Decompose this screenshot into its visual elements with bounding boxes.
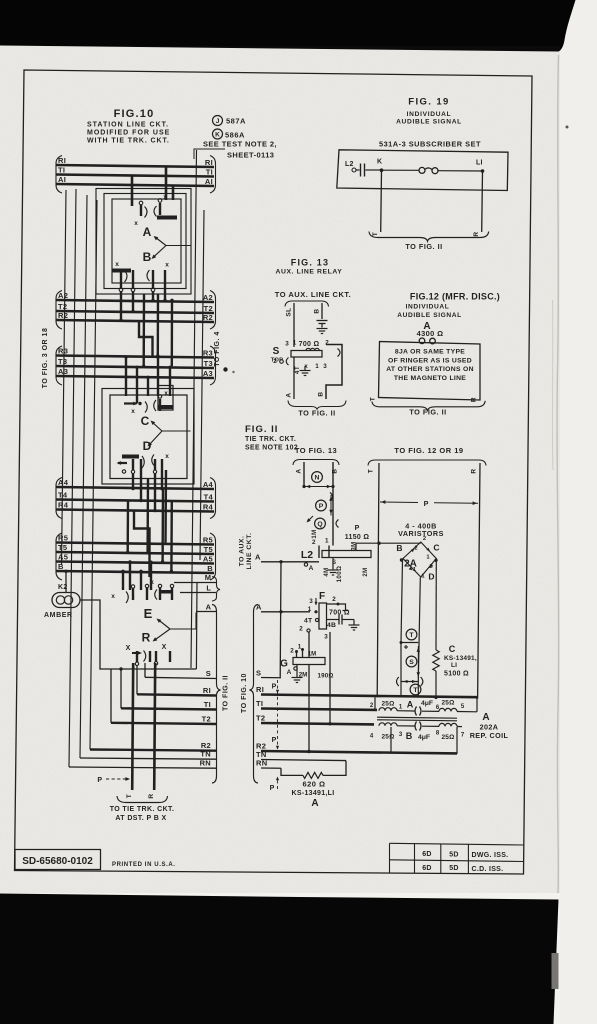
contact B arcs [125,271,128,283]
rail wire right 2 [200,210,204,560]
wire drop to R4 [154,473,156,511]
wire drop to T4 [140,470,142,501]
wire drop A3 right to C [169,366,171,396]
left cable bracket G5 [56,533,62,580]
cable bracket to FIG.13 [293,460,339,466]
wire R vertical (FIG.11) [478,463,480,699]
wire drop A5 to contact E [129,562,131,590]
ringer gongs (FIG.12) [419,338,425,344]
wire RN (FIG.11) [261,767,281,769]
terminal arrow (F) [315,598,317,605]
wire M [174,582,216,584]
wire T vertical (FIG.11) [377,463,379,697]
relay S coil [291,351,322,358]
wire drop T4 to B [170,500,173,571]
winding A humps right [439,708,457,711]
rail wire right 1 [191,150,197,668]
lamp K2 output wire [80,600,128,669]
wire varistor bottom down [418,578,420,682]
rep coil right edge [476,698,478,712]
wire step R2 to R3 [139,320,153,356]
terminal bars L2 [318,546,320,559]
cable bracket FIG.12 bottom [372,401,485,411]
wire drop A1 to contact A [172,185,175,201]
subscriber set box [337,150,508,191]
gray smudge on bottom band edge [552,953,559,989]
wire B (FIG.13) [321,303,323,319]
relay Q circle [315,518,326,529]
cable bracket to FIG.12/19 [368,460,486,466]
right cable bracket G1 [210,156,216,194]
capacitor 4UF B [415,722,417,731]
contact B terminal circles [119,288,123,292]
contact P double arrow [330,495,332,516]
cable bracket FIG.13 top [285,301,329,307]
wire drop B to contact E b [140,571,142,590]
apparatus J 587A [213,116,223,126]
issue table verticals [389,843,391,873]
contact loop E bottom edge [128,668,196,670]
wire T contact riser [400,643,402,698]
lamp K2 tail wire [65,571,67,592]
arrow to C [152,422,162,431]
contact arc Q [336,520,339,528]
contact loop rect A/B middle [104,194,186,289]
wire T bottom to coil [417,682,419,698]
ringer gongs [419,167,425,173]
wire RI (FIG.10) [57,165,215,167]
wire R2 (FIG.10) [57,320,215,322]
wire G coil down [308,665,310,752]
wire drop to T2 [132,291,134,311]
issue table mid line [390,860,524,862]
contact A left spring [139,201,143,205]
arrow to D [149,431,162,445]
capacitor 4UF A [415,707,417,716]
wire AI (FIG.10) [57,184,215,186]
wire A input [261,611,310,613]
terminal L2 circle [352,168,356,172]
arrow to R [154,629,170,641]
wire drop to A2 a [152,291,154,300]
contact loop rect C/D outer [102,389,194,485]
contact T row [401,642,418,644]
wire drop R3 to contact C [125,356,127,396]
contact arc B wire [330,493,333,501]
border frame [15,70,533,874]
wire terminal 2 right [326,345,342,400]
wire A down (FIG.13) [293,357,295,399]
wire resistor to coil [435,671,437,697]
bottom black band [0,894,559,1024]
relay S circle [406,656,417,667]
top black band [0,0,576,52]
contact arc right (FIG.13) [338,349,341,357]
relay P circle [316,500,327,511]
wire A top (FIG.11) [261,561,319,563]
drawing number box [15,850,101,870]
terminal A circle (L2) [304,563,307,566]
contact loop rect A/B inner [112,199,181,283]
varistor corner dots [400,558,403,561]
contact A armature bar [157,216,177,220]
wire T4 (FIG.10) [57,500,215,502]
wire drop long to T3 [142,294,145,366]
contact arc left (FIG.13) [286,358,288,366]
wire R5 (FIG.10) [57,543,215,545]
wire resistor to TN riser [323,761,346,776]
wire L2-K [366,169,382,171]
cable bracket PBX [117,796,168,803]
wire drop to contact C right [157,356,159,396]
wire L1 down [481,171,484,232]
wire from C/D arrow vertex [162,430,191,432]
wire drop T1 to contact A [131,176,134,207]
wire R4 (FIG.10) [57,510,215,512]
winding A mid wire [397,710,415,712]
wire T2 left riser [110,669,112,723]
wire varistor left corner down [401,560,403,643]
rep coil lower left drop [390,727,392,753]
wire B vertical (N col) [332,462,334,546]
wire drop R1 to contact A [165,166,168,201]
contact loop rect C/D [110,395,187,479]
contact D terminal circles [122,470,125,473]
wire T to PBX [132,663,133,790]
wire from E/R arrow vertex [170,613,196,630]
wire A2 (FIG.10) [57,300,215,302]
rail wire left 2 [80,195,87,758]
wire R2 (FIG.11) [261,751,457,753]
wire B (FIG.10) [57,571,215,573]
winding B humps left [379,723,397,726]
wire R2 output (FIG.10) [90,750,216,751]
contact R arcs [144,651,146,662]
rep coil left edge [374,697,376,710]
right cable bracket G4 [210,478,216,519]
wire step R4 to cluster E [134,510,150,577]
wire RI left riser [136,666,138,695]
ringer box (FIG.12) [379,342,481,401]
ground (G) [296,665,298,678]
wire R to PBX [154,663,155,790]
winding B right wire [422,725,439,727]
left cable bracket G2 [56,291,62,330]
varistor arrows [411,547,416,552]
wire A output [196,611,216,613]
coil humps (FIG.13) [306,348,319,350]
contact A left arc [145,207,148,218]
arrow to B [153,246,166,258]
wire A4 (FIG.10) [57,487,215,489]
wire L [180,592,216,594]
wire F to G [308,632,310,658]
ground B (FIG.13) [317,328,328,330]
contact T bottom row [401,681,418,683]
capacitor (F) [327,619,339,621]
contact R terminal circles [135,662,138,665]
wire RI output (FIG.10) [137,694,216,695]
contact D springs [132,459,134,470]
wire F 3 terminal down [329,632,331,724]
resistor C zigzag [433,650,439,671]
wire drop T3 to contact C [136,366,138,403]
wire drop T4 to T5 [126,500,129,552]
wire TI output (FIG.10) [121,708,216,709]
P dimension line [380,501,418,504]
torn page right edge line [557,55,559,893]
right cable bracket G5 [210,533,216,580]
wire K down [380,170,383,232]
wire K to gong [382,169,420,171]
contact A right arc [154,206,157,217]
wire drop A2-T3 right [171,300,174,366]
wire drop A5 to contact E b [150,562,152,590]
wire RI (FIG.11) [261,695,477,698]
wire drop to A4 right [161,470,163,489]
contact B armature bar [112,269,131,273]
lamp K2 body [52,593,80,608]
contact loop rect A/B outer [96,189,191,295]
paper grain overlay [0,0,1,1]
wire SL [293,303,295,347]
wire drop to A4 [132,473,134,489]
wire from arrow vertex [166,245,191,247]
contact E armature bar [161,590,171,594]
left cable bracket G3 [56,346,62,385]
contact S double arrow [417,646,419,678]
right cable bracket G3 [210,346,216,385]
wire A5 (FIG.10) [57,562,215,564]
speck near right edge [566,126,569,129]
resistor 620 ohm [303,772,323,778]
contact R springs [136,651,138,662]
contact N double arrow [304,486,333,488]
capacitor B (FIG.13) [317,320,328,322]
left cable bracket G4 [56,478,62,519]
wire drop C/D long to R5 [164,470,167,543]
relay T circle lower [410,684,421,695]
node K junction [380,168,384,172]
wire S output (FIG.10) [145,677,216,678]
wire drop A3 to contact C [147,376,149,396]
arrow to A [155,237,166,246]
contact loop rect C/D top right [158,386,173,411]
node dot below TO FIG. 4 [223,367,227,371]
wire drop to R2 [120,291,122,320]
wire TI left riser [120,669,122,708]
wire R3 (FIG.10) [57,356,215,358]
wire varistor right down [435,560,437,651]
contact E arcs [126,592,128,604]
note pointer wire [194,149,225,159]
winding B mid wire [397,725,415,727]
contact E springs [131,585,134,588]
winding A humps left [379,708,397,711]
wire A vertical (N col) [303,462,305,487]
apparatus K 586A [213,129,223,139]
wire gong to L1 [438,170,483,172]
wire S (FIG.11) [261,677,281,679]
contact D armature bar [122,455,139,459]
rail wire left 3 [90,200,97,750]
right cable bracket G2 [210,291,216,330]
wire T3 (FIG.10) [57,366,215,368]
right backing strip [560,0,597,1024]
contact C right spring [158,395,161,398]
terminal bars (G) [296,652,298,658]
contact A right spring [158,199,162,203]
contact C arcs [145,402,147,413]
wire L2 ground stub [332,558,334,571]
winding A end wire [457,711,477,713]
arrow to E [158,620,170,630]
wire RN step down [281,768,303,775]
cable bracket FIG.10 to FIG.11 [212,605,221,784]
contact C armature bar [158,405,173,409]
relay G coil [293,658,325,665]
rep coil core lines [377,717,457,718]
contact arcs T bottom [397,677,399,686]
wire T2 (FIG.10) [57,311,215,313]
winding A right wire [422,710,439,712]
winding B humps right [439,723,457,726]
wire drop B to contact E a [122,571,124,590]
contact B springs [120,270,122,288]
cable bracket M/L [212,577,220,602]
wire TI (FIG.11) [261,709,377,710]
capacitor K (FIG.19) [356,169,360,171]
wire drop C/D long to T5 [146,479,149,553]
wire drop to A2 b [164,288,166,300]
terminal L1 [481,169,485,173]
wire T5 (FIG.10) [57,552,215,554]
speck mid page [232,371,234,373]
rail wire left 1 [69,189,76,767]
wire RN output (FIG.10) [69,767,216,768]
relay F coil [319,603,327,629]
wire drop A4 to A5 [161,489,164,562]
wire S left riser [144,663,146,677]
contact D arrow feed [118,462,127,464]
relay N circle [312,472,323,483]
P dimension arrow PBX [106,778,127,780]
contact loop E right edge [195,583,198,669]
wire A3 (FIG.10) [57,376,215,378]
wire T2 output (FIG.10) [111,723,216,724]
cable bracket FIG.19 bottom [369,232,489,242]
ground (F cap) [353,620,355,625]
contact Q arrow [308,516,314,522]
contact D arcs [142,456,144,468]
wire TN (FIG.11) [261,760,346,761]
ground L2 [328,569,339,571]
wire drop long to R3 [157,294,160,356]
relay L2 coil [322,551,371,558]
left cable bracket G1 [56,156,62,194]
wire TI (FIG.10) [57,175,215,177]
cable bracket FIG.11 inputs [250,605,259,784]
wire T2 (FIG.11) [261,723,374,724]
wire A riser [279,562,282,678]
rail wire left 4 [62,190,67,565]
contact R arrow feed [132,652,140,654]
rep coil lower right drop [456,727,458,754]
contact C arrow feed [124,402,137,404]
relay T circle upper [406,629,417,640]
issue table top line [390,843,524,845]
wire TN output (FIG.10) [80,758,216,759]
wire 3M to varistor top [356,543,421,550]
winding B end wire [457,726,462,728]
cable bracket FIG.13 bottom [288,401,346,410]
ground S (FIG.13) [304,366,306,371]
varistor diamond [403,542,436,577]
